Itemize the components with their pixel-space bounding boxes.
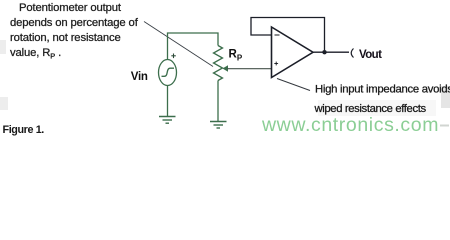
svg-text:Figure 1.: Figure 1. bbox=[3, 124, 45, 136]
svg-text:Vin: Vin bbox=[131, 71, 148, 83]
svg-text:Vout: Vout bbox=[359, 49, 382, 61]
svg-text:High input impedance avoids: High input impedance avoids bbox=[315, 84, 450, 96]
svg-text:Potentiometer output: Potentiometer output bbox=[19, 2, 122, 14]
svg-text:depends on percentage of: depends on percentage of bbox=[10, 17, 139, 29]
svg-text:www.cntronics.com: www.cntronics.com bbox=[261, 114, 439, 136]
svg-text:rotation, not resistance: rotation, not resistance bbox=[10, 32, 121, 44]
